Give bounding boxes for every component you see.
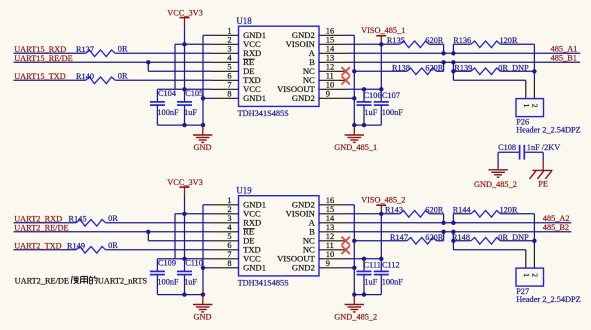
- svg-text:1uF: 1uF: [184, 108, 197, 117]
- pin 3 stub: [211, 52, 238, 54]
- svg-text:VCC_3V3: VCC_3V3: [167, 8, 203, 17]
- wire net A: [346, 52, 580, 54]
- op-amp U U18 TDH341S485S box: [239, 26, 320, 106]
- svg-text:C111: C111: [364, 260, 381, 269]
- wire net UART2_TXD: [14, 249, 77, 251]
- op-amp U U19 TDH341S485S box: [239, 196, 320, 276]
- connector P27 Header 2_2.54DPZ: [516, 268, 544, 286]
- svg-text:GND1: GND1: [243, 93, 266, 103]
- power symbol VCC_3V3: [180, 17, 190, 19]
- svg-text:R139: R139: [454, 63, 472, 72]
- svg-text:C104: C104: [158, 89, 177, 98]
- svg-text:2: 2: [227, 36, 231, 45]
- junction C106 rail: [362, 123, 366, 127]
- svg-text:100nF: 100nF: [382, 277, 404, 286]
- svg-text:6: 6: [227, 72, 231, 81]
- svg-text:12: 12: [326, 232, 334, 241]
- svg-text:C107: C107: [382, 91, 400, 100]
- junction B R138 tap: [441, 230, 445, 234]
- wire C108 left: [498, 151, 519, 153]
- svg-text:GND2: GND2: [292, 93, 315, 103]
- wire pin10 VISOOUT: [346, 88, 381, 90]
- pin 9 stub: [319, 97, 346, 99]
- svg-text:U19: U19: [236, 186, 252, 196]
- svg-text:7: 7: [227, 250, 231, 259]
- svg-text:15: 15: [326, 36, 334, 45]
- pin 13 stub: [319, 231, 346, 233]
- wire VCC_3V3 vertical: [184, 25, 186, 101]
- svg-text:UART15_RXD: UART15_RXD: [14, 45, 66, 54]
- svg-text:Header 2_2.54DPZ: Header 2_2.54DPZ: [516, 125, 581, 134]
- wire pin8 GND1: [203, 267, 211, 269]
- power symbol VISO_485_1: [376, 35, 386, 37]
- junction pin8 GND1: [201, 96, 205, 100]
- wire GND2 vertical: [346, 34, 354, 36]
- svg-text:100nF: 100nF: [157, 277, 179, 286]
- capacitor C108 1nF/2KV: [519, 145, 521, 160]
- svg-text:0R: 0R: [118, 44, 128, 53]
- wire VCC_3V3 vertical: [184, 195, 186, 271]
- svg-text:9: 9: [326, 90, 330, 99]
- junction GND2 R bias: [352, 69, 356, 73]
- junction VCC pin7: [182, 257, 186, 261]
- pin 1 stub: [211, 204, 238, 206]
- capacitor C107 100nF: [374, 101, 389, 103]
- ground GND: [202, 295, 204, 305]
- power symbol VISO_485_2: [376, 204, 386, 206]
- svg-text:GND2: GND2: [292, 263, 315, 273]
- capacitor C104 100nF: [156, 89, 158, 101]
- pin 4 stub: [211, 231, 238, 233]
- svg-text:0R DNP: 0R DNP: [498, 233, 529, 242]
- wire B to header pin1: [452, 62, 454, 80]
- pin 6 stub: [211, 79, 238, 81]
- svg-text:C105: C105: [185, 89, 203, 98]
- junction VISO pin15: [379, 212, 383, 216]
- wire GND_485 rail: [354, 124, 381, 126]
- junction C106 tap: [362, 257, 366, 261]
- svg-text:R147: R147: [390, 233, 408, 242]
- wire net A: [346, 222, 571, 224]
- resistor R136 120R: [452, 44, 454, 53]
- junction C105 rail: [182, 292, 186, 296]
- no-connect pin12: [342, 237, 350, 245]
- svg-text:485_B2: 485_B2: [543, 223, 569, 232]
- junction VISO pin15: [379, 42, 383, 46]
- svg-text:C108: C108: [498, 143, 516, 152]
- wire node to header pin2: [533, 71, 535, 80]
- overline RE: [243, 58, 255, 60]
- svg-text:120R: 120R: [500, 206, 518, 215]
- svg-text:UART2_RXD: UART2_RXD: [14, 214, 62, 223]
- junction VCC pin7: [182, 87, 186, 91]
- junction A R135 tap: [441, 221, 445, 225]
- wire pin10 VISOOUT: [346, 258, 381, 260]
- wire VCC pin2 branch: [175, 43, 211, 45]
- svg-text:PE: PE: [538, 180, 548, 189]
- svg-text:8: 8: [227, 259, 231, 268]
- wire GND2 vertical: [346, 204, 354, 206]
- svg-text:100nF: 100nF: [382, 108, 404, 117]
- svg-text:0R: 0R: [108, 214, 118, 223]
- svg-text:6: 6: [227, 241, 231, 250]
- capacitor C109 100nF: [156, 259, 158, 271]
- svg-text:C112: C112: [382, 260, 400, 269]
- svg-text:Header 2_2.54DPZ: Header 2_2.54DPZ: [516, 295, 581, 304]
- junction VCC pin2: [182, 212, 186, 216]
- svg-text:VISO_485_2: VISO_485_2: [361, 196, 405, 205]
- svg-text:1uF: 1uF: [184, 277, 197, 286]
- pin 2 stub: [211, 213, 238, 215]
- resistor R140 0R: [86, 77, 116, 84]
- svg-text:1uF: 1uF: [364, 277, 377, 286]
- pin 14 stub: [319, 222, 346, 224]
- wire pin9: [346, 267, 354, 269]
- no-connect pin11: [342, 246, 350, 254]
- svg-text:1uF: 1uF: [364, 108, 377, 117]
- svg-text:C109: C109: [158, 259, 176, 268]
- wire VISO vertical: [380, 42, 382, 101]
- junction B R138 tap: [441, 60, 445, 64]
- svg-text:C110: C110: [185, 259, 203, 268]
- svg-text:GND: GND: [194, 313, 212, 322]
- svg-text:485_A1: 485_A1: [551, 45, 578, 54]
- svg-text:R145: R145: [69, 214, 87, 223]
- capacitor C105 1uF: [177, 101, 192, 103]
- svg-text:10: 10: [326, 81, 334, 90]
- svg-text:1: 1: [227, 27, 231, 36]
- pin 5 stub: [211, 240, 238, 242]
- capacitor C106 1uF: [363, 89, 365, 101]
- wire pin9: [346, 97, 354, 99]
- resistor R138 620R: [354, 70, 407, 72]
- svg-text:UART2_RE/DE: UART2_RE/DE: [14, 223, 68, 232]
- svg-text:7: 7: [227, 81, 231, 90]
- svg-text:UART2_RE/DE: UART2_RE/DE: [15, 276, 69, 285]
- junction B header tap: [451, 230, 455, 234]
- junction GND rail: [201, 292, 205, 296]
- pin 12 stub: [319, 240, 346, 242]
- junction R139 left: [451, 69, 455, 73]
- no-connect pin11: [342, 76, 350, 84]
- wire DE pin5: [148, 240, 211, 242]
- wire VISO vertical: [380, 212, 382, 272]
- junction GND rail: [201, 123, 205, 127]
- wire net B: [346, 231, 571, 233]
- svg-text:620R: 620R: [425, 233, 443, 242]
- wire B to header pin1: [452, 232, 454, 250]
- svg-text:0R: 0R: [108, 241, 118, 250]
- pin 4 stub: [211, 61, 238, 63]
- pin 15 stub: [319, 43, 346, 45]
- pin 6 stub: [211, 249, 238, 251]
- svg-text:15: 15: [326, 205, 334, 214]
- resistor R147 620R: [354, 240, 407, 242]
- svg-text:8: 8: [227, 90, 231, 99]
- resistor R137 0R: [86, 50, 116, 57]
- svg-text:TDH341S485S: TDH341S485S: [238, 279, 290, 288]
- svg-text:16: 16: [326, 196, 334, 205]
- svg-text:14: 14: [326, 214, 335, 223]
- wire pin8 GND1: [203, 97, 211, 99]
- svg-text:1: 1: [522, 273, 531, 277]
- junction RE/DE branch: [146, 230, 150, 234]
- wire net UART2_RXD: [14, 222, 77, 224]
- svg-text:2: 2: [227, 205, 231, 214]
- svg-text:VISO_485_1: VISO_485_1: [361, 26, 405, 35]
- junction GND2 rail: [352, 123, 356, 127]
- svg-text:GND: GND: [194, 143, 212, 152]
- resistor R148 0R DNP: [453, 240, 471, 242]
- pin 7 stub: [211, 258, 238, 260]
- pin 16 stub: [319, 34, 346, 36]
- ground GND_485_2 (C108): [488, 169, 507, 171]
- svg-text:120R: 120R: [500, 36, 518, 45]
- svg-text:13: 13: [326, 223, 334, 232]
- header pin1 stub: [525, 80, 527, 98]
- svg-text:5: 5: [227, 232, 231, 241]
- junction R139 right: [532, 69, 536, 73]
- pin 15 stub: [319, 213, 346, 215]
- wire VCC pin7 row: [157, 258, 211, 260]
- junction R139 right: [532, 239, 536, 243]
- wire VCC pin2 branch: [175, 213, 211, 215]
- junction pin8 GND1: [201, 266, 205, 270]
- wire net UART15_RXD: [14, 52, 86, 54]
- wire GND1 vertical pin1-pin8: [202, 205, 204, 295]
- svg-text:R137: R137: [76, 45, 94, 54]
- resistor R149 0R: [76, 247, 106, 254]
- svg-text:100nF: 100nF: [157, 108, 179, 117]
- svg-text:3: 3: [227, 45, 231, 54]
- wire pin15 VISOIN: [346, 43, 381, 45]
- svg-text:10: 10: [326, 250, 334, 259]
- capacitor C110 1uF: [177, 270, 192, 272]
- wire GND1 vertical pin1-pin8: [202, 35, 204, 125]
- earth PE symbol: [542, 161, 544, 171]
- ground GND: [202, 125, 204, 135]
- svg-text:UART15_TXD: UART15_TXD: [14, 72, 66, 81]
- svg-text:11: 11: [326, 72, 334, 81]
- header pin1 stub: [525, 250, 527, 268]
- resistor R143 620R: [381, 213, 400, 215]
- ground GND_485_1: [353, 125, 355, 135]
- wire RE/DE branch vertical: [147, 232, 149, 241]
- junction GND2 pin9: [352, 96, 356, 100]
- svg-text:16: 16: [326, 27, 334, 36]
- svg-text:620R: 620R: [425, 36, 443, 45]
- svg-text:14: 14: [326, 45, 335, 54]
- svg-text:485_B1: 485_B1: [551, 54, 577, 63]
- junction B header tap: [451, 60, 455, 64]
- svg-text:3: 3: [227, 214, 231, 223]
- svg-text:GND_485_1: GND_485_1: [334, 143, 377, 152]
- junction C106 tap: [362, 87, 366, 91]
- svg-text:UART2_TXD: UART2_TXD: [14, 241, 61, 250]
- wire RE/DE branch vertical: [147, 62, 149, 71]
- svg-text:5: 5: [227, 63, 231, 72]
- wire net UART2_RE/DE: [14, 231, 212, 233]
- pin 1 stub: [211, 34, 238, 36]
- junction A R135 tap: [441, 51, 445, 55]
- no-connect pin12: [342, 67, 350, 75]
- capacitor C111 1uF: [363, 259, 365, 271]
- svg-text:1: 1: [522, 104, 531, 108]
- svg-text:R140: R140: [76, 72, 94, 81]
- resistor R145 0R: [76, 220, 106, 227]
- pin 5 stub: [211, 70, 238, 72]
- pin 16 stub: [319, 204, 346, 206]
- svg-text:9: 9: [326, 259, 330, 268]
- junction C106 rail: [362, 292, 366, 296]
- svg-text:13: 13: [326, 54, 334, 63]
- wire DE pin5: [148, 70, 211, 72]
- wire net B: [346, 61, 580, 63]
- junction GND2 rail: [352, 292, 356, 296]
- overline RE: [243, 228, 255, 230]
- wire pin15 VISOIN: [346, 213, 381, 215]
- svg-text:620R: 620R: [425, 63, 443, 72]
- svg-text:0R: 0R: [118, 71, 128, 80]
- svg-text:620R: 620R: [425, 206, 443, 215]
- junction R139 left: [451, 239, 455, 243]
- pin 9 stub: [319, 267, 346, 269]
- wire node to header pin2: [533, 241, 535, 250]
- pin 8 stub: [211, 267, 238, 269]
- svg-text:R136: R136: [453, 36, 471, 45]
- svg-text:2: 2: [530, 104, 539, 108]
- junction RE/DE branch: [146, 60, 150, 64]
- svg-text:UART15_RE/DE: UART15_RE/DE: [14, 54, 72, 63]
- resistor R139 0R DNP: [453, 70, 471, 72]
- junction VCC pin2: [182, 42, 186, 46]
- svg-text:12: 12: [326, 63, 334, 72]
- header pin2 stub: [533, 80, 535, 98]
- svg-text:2: 2: [530, 273, 539, 277]
- wire GND rail left: [157, 294, 203, 296]
- junction VISO pin10: [379, 87, 383, 91]
- svg-text:11: 11: [326, 241, 334, 250]
- pin 8 stub: [211, 97, 238, 99]
- power symbol VCC_3V3: [180, 186, 190, 188]
- junction GND2 R bias: [352, 239, 356, 243]
- header pin2 stub: [533, 250, 535, 268]
- svg-text:485_A2: 485_A2: [543, 214, 570, 223]
- wire net UART15_TXD: [14, 79, 86, 81]
- svg-text:R144: R144: [453, 206, 472, 215]
- pin 10 stub: [319, 88, 346, 90]
- wire VCC pin7 row: [157, 88, 211, 90]
- junction C105 rail: [182, 123, 186, 127]
- connector P26 Header 2_2.54DPZ: [516, 99, 544, 117]
- resistor R144 120R: [452, 214, 454, 223]
- svg-text:0R DNP: 0R DNP: [498, 63, 529, 72]
- wire C108 right: [525, 151, 543, 153]
- wire GND rail left: [157, 124, 203, 126]
- junction VISO pin10: [379, 257, 383, 261]
- svg-text:1nF /2KV: 1nF /2KV: [527, 143, 560, 152]
- svg-text:GND_485_2: GND_485_2: [474, 180, 517, 189]
- wire GND_485 rail: [354, 294, 381, 296]
- svg-text:R149: R149: [67, 241, 85, 250]
- pin 14 stub: [319, 52, 346, 54]
- svg-text:R135: R135: [387, 36, 405, 45]
- wire net UART15_RE/DE: [14, 61, 212, 63]
- pin 7 stub: [211, 88, 238, 90]
- resistor R135 620R: [381, 43, 400, 45]
- svg-text:R143: R143: [385, 206, 403, 215]
- svg-text:U18: U18: [236, 16, 252, 26]
- svg-text:R138: R138: [392, 63, 410, 72]
- junction A R136 tap: [451, 221, 455, 225]
- pin 11 stub: [319, 79, 346, 81]
- svg-text:C106: C106: [364, 91, 382, 100]
- svg-text:GND1: GND1: [243, 263, 266, 273]
- junction A R136 tap: [451, 51, 455, 55]
- junction GND2 pin9: [352, 266, 356, 270]
- pin 10 stub: [319, 258, 346, 260]
- pin 13 stub: [319, 61, 346, 63]
- svg-text:GND_485_2: GND_485_2: [334, 313, 377, 322]
- svg-text:TDH341S485S: TDH341S485S: [238, 109, 290, 118]
- pin 2 stub: [211, 43, 238, 45]
- ground GND_485_2: [353, 295, 355, 305]
- pin 3 stub: [211, 222, 238, 224]
- svg-text:VCC_3V3: VCC_3V3: [167, 178, 203, 187]
- svg-text:1: 1: [227, 196, 231, 205]
- capacitor C112 100nF: [374, 270, 389, 272]
- svg-text:UART2_nRTS: UART2_nRTS: [98, 276, 148, 285]
- pin 12 stub: [319, 70, 346, 72]
- pin 11 stub: [319, 249, 346, 251]
